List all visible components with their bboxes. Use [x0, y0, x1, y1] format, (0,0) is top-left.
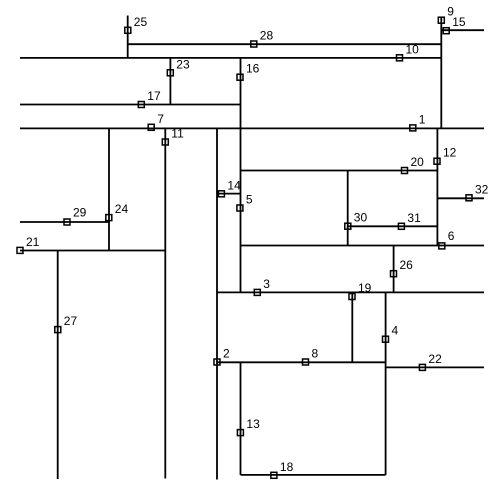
wire [108, 128, 110, 251]
node 20 [402, 155, 425, 174]
node 7 [148, 112, 164, 131]
wire [347, 171, 349, 246]
node 13 [237, 417, 260, 436]
wire [241, 245, 485, 247]
svg-text:30: 30 [354, 211, 368, 225]
node 2 [214, 347, 230, 366]
node 25 [125, 15, 148, 34]
wire [217, 291, 484, 293]
wire [20, 127, 484, 129]
wire [393, 246, 395, 293]
wire [217, 361, 386, 363]
node 10 [397, 42, 420, 61]
node 8 [303, 347, 319, 366]
wire [57, 251, 59, 480]
svg-text:6: 6 [448, 229, 455, 243]
wire [241, 170, 438, 172]
node 28 [251, 29, 274, 48]
svg-text:26: 26 [400, 258, 414, 272]
node 14 [218, 178, 241, 197]
node 19 [349, 281, 372, 300]
wire [348, 225, 438, 227]
node 16 [237, 62, 260, 81]
node 29 [64, 206, 87, 226]
wire [216, 128, 218, 480]
node 6 [439, 229, 455, 249]
node 23 [167, 57, 190, 76]
wire [20, 221, 109, 223]
wire [386, 366, 484, 368]
svg-text:11: 11 [171, 127, 184, 141]
wire [127, 16, 129, 59]
wire [20, 57, 441, 59]
svg-text:23: 23 [176, 57, 190, 71]
svg-text:5: 5 [246, 193, 253, 207]
svg-text:27: 27 [64, 314, 78, 328]
svg-text:3: 3 [263, 277, 270, 291]
node 31 [398, 211, 421, 230]
node 11 [162, 127, 184, 146]
svg-text:15: 15 [452, 15, 466, 29]
wire [385, 292, 387, 475]
svg-text:28: 28 [260, 29, 274, 43]
node 21 [17, 235, 40, 254]
node 1 [410, 112, 426, 130]
node 26 [391, 258, 414, 277]
svg-text:22: 22 [428, 352, 442, 366]
svg-text:7: 7 [157, 112, 164, 126]
node 15 [443, 15, 466, 34]
wire [436, 128, 438, 246]
svg-text:21: 21 [26, 235, 40, 249]
svg-text:25: 25 [134, 15, 148, 29]
wire [440, 17, 442, 129]
svg-text:2: 2 [223, 347, 230, 361]
svg-text:32: 32 [475, 182, 489, 196]
wire [20, 104, 241, 106]
svg-text:12: 12 [443, 146, 457, 160]
node 12 [434, 146, 457, 165]
wire [351, 292, 353, 362]
svg-text:14: 14 [227, 178, 241, 192]
node 9 [438, 5, 454, 24]
svg-text:18: 18 [280, 460, 294, 474]
wire [20, 250, 165, 252]
node 4 [383, 324, 399, 343]
node 30 [345, 211, 368, 230]
wire [169, 58, 171, 105]
wire [164, 128, 166, 479]
node 3 [254, 277, 270, 296]
wire [437, 197, 484, 199]
svg-text:1: 1 [419, 112, 426, 126]
wire [441, 29, 484, 31]
svg-text:13: 13 [246, 417, 260, 431]
svg-text:19: 19 [358, 281, 372, 295]
svg-text:24: 24 [115, 202, 129, 216]
node 22 [419, 352, 442, 371]
svg-text:20: 20 [411, 155, 425, 169]
node 5 [237, 193, 253, 212]
wire [218, 193, 241, 195]
node 17 [138, 89, 161, 108]
wire [241, 474, 386, 476]
wire [240, 58, 242, 292]
svg-text:8: 8 [312, 347, 319, 361]
svg-text:4: 4 [392, 324, 399, 338]
wire [240, 362, 242, 475]
svg-text:17: 17 [147, 89, 161, 103]
node 18 [271, 460, 294, 479]
node 24 [106, 202, 129, 221]
wire [128, 43, 442, 45]
svg-text:29: 29 [73, 206, 87, 220]
node 32 [466, 182, 489, 201]
node 27 [55, 314, 78, 333]
svg-text:10: 10 [406, 42, 420, 56]
svg-text:16: 16 [246, 62, 260, 76]
svg-text:31: 31 [407, 211, 421, 225]
